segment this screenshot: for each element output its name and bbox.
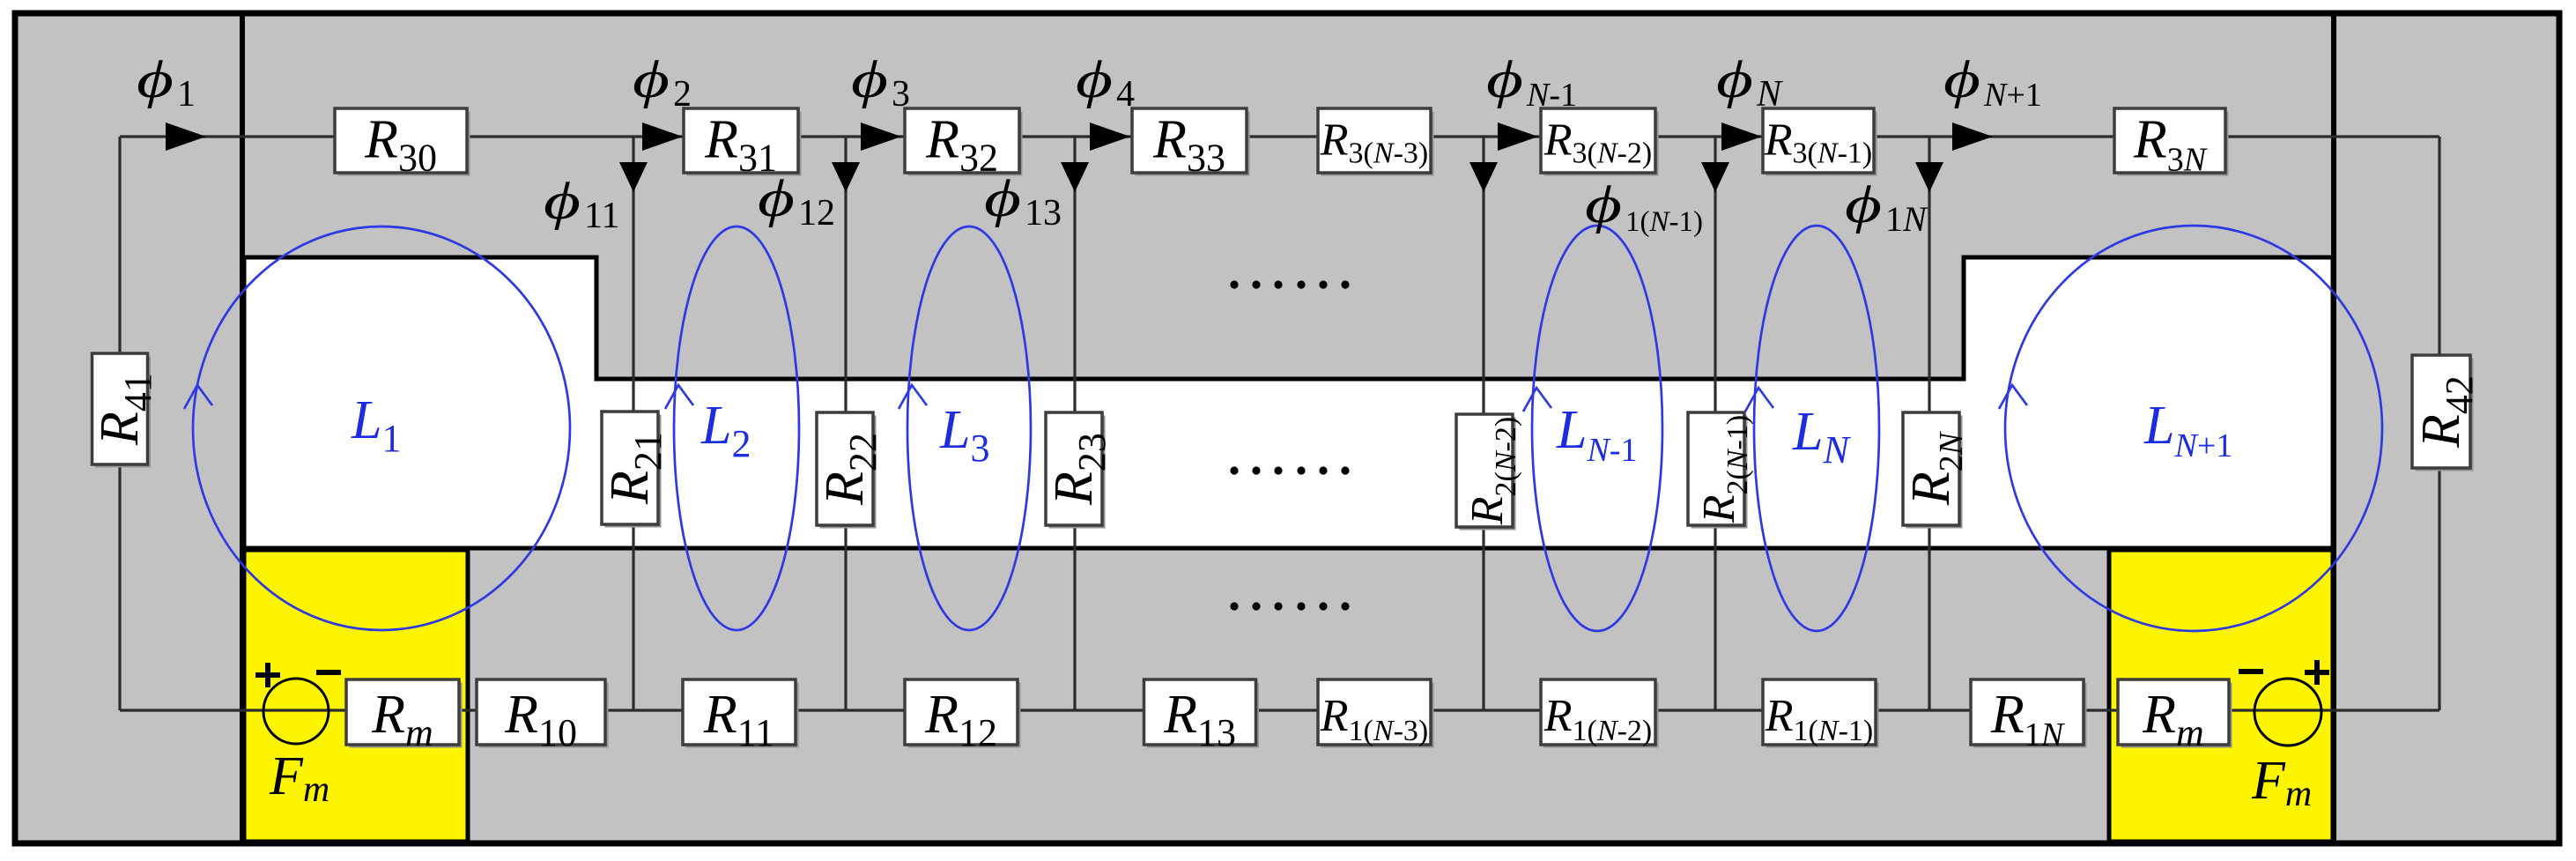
source label Fm left: [269, 746, 329, 810]
node label phiN-1: [1486, 50, 1577, 114]
inductance label LN+1: [2143, 396, 2232, 464]
MMF source Fm right (circle): [2254, 679, 2321, 746]
wire bottom horizontal rail: [120, 709, 2439, 711]
flux arrow phi4 (right): [1090, 122, 1130, 151]
resistor R10: [477, 679, 609, 754]
wire top horizontal flux rail: [120, 135, 2439, 137]
node label phi4: [1076, 50, 1135, 115]
flux arrow phi1N (down): [1915, 162, 1943, 192]
right inner wall: [2331, 16, 2336, 841]
node label phiN: [1716, 50, 1783, 115]
arrowhead on L1 loop: [184, 385, 212, 409]
resistor R3N: [2114, 108, 2229, 179]
flux arrow phi2 (right): [642, 122, 683, 151]
inductance label L2: [700, 396, 751, 465]
flux arrow phi3 (right): [861, 122, 901, 151]
wire tooth branch 6: [1928, 137, 1930, 710]
resistor R42: [2411, 355, 2481, 471]
resistor Rm right: [2118, 679, 2232, 754]
arrowhead on L3 loop: [899, 385, 927, 409]
inductance LN-1 loop ellipse: [1532, 226, 1662, 631]
resistor R23: [1044, 412, 1114, 529]
node label phi2: [633, 50, 692, 115]
wire tooth branch 4: [1482, 137, 1484, 710]
resistor R32: [905, 108, 1023, 180]
resistor R1(N-1): [1763, 679, 1879, 748]
resistor R1N: [1971, 679, 2087, 753]
resistor R11: [683, 679, 799, 754]
minus sign right source: [2239, 669, 2263, 674]
continuation dots lower row: [1230, 602, 1349, 610]
magnet block left (Fm source region): [244, 550, 468, 842]
node label phi1: [137, 50, 196, 115]
resistor R21: [600, 412, 670, 528]
resistor R31: [684, 108, 802, 180]
inductance label LN-1: [1556, 400, 1638, 469]
arrowhead on L2 loop: [665, 385, 693, 409]
continuation dots upper row: [1230, 280, 1349, 288]
continuation dots middle row: [1230, 466, 1349, 474]
node label phi13: [984, 169, 1062, 234]
wire right return branch (R42): [2438, 137, 2440, 710]
flux arrow phi13 (down): [1061, 162, 1089, 192]
wire left return branch (R41): [118, 137, 121, 710]
magnet block right (Fm source region): [2109, 550, 2333, 842]
minus sign left source: [316, 670, 341, 675]
resistor R2(N-1): [1688, 412, 1754, 529]
flux arrow phiN+1 (right): [1952, 122, 1993, 151]
resistor R22: [815, 412, 885, 529]
flux arrow phi11 (down): [619, 162, 648, 192]
flux arrow phiN-1 (right): [1498, 122, 1538, 151]
flux arrow phiN (right): [1721, 122, 1762, 151]
resistor R1(N-2): [1541, 679, 1659, 748]
white stator slab (air region): [244, 257, 2333, 548]
inductance label L1: [351, 390, 401, 460]
resistor R3(N-3): [1318, 108, 1434, 176]
left inner wall: [240, 16, 245, 841]
resistor R12: [905, 679, 1021, 754]
plus sign right source: [2305, 660, 2329, 685]
resistor R30: [335, 108, 470, 180]
node label phi3: [851, 50, 910, 115]
resistor R2(N-2): [1456, 414, 1522, 531]
resistor R33: [1132, 108, 1250, 180]
inductance L2 loop ellipse: [674, 226, 799, 630]
wire tooth branch 2: [844, 137, 847, 710]
node label phi12: [758, 169, 835, 234]
inductance L3 loop ellipse: [907, 226, 1031, 630]
node label phi1(N-1): [1585, 175, 1703, 238]
inductance L1 loop ellipse: [193, 226, 570, 630]
wire tooth branch 3: [1073, 137, 1076, 710]
resistor R3(N-1): [1763, 108, 1877, 176]
inductance LN+1 loop ellipse: [2005, 226, 2382, 631]
flux arrow phi1(N-1)b (down): [1701, 162, 1729, 192]
resistor R13: [1144, 679, 1260, 754]
arrowhead on LN+1 loop: [1999, 385, 2027, 409]
resistor R3(N-2): [1541, 108, 1659, 176]
inductance label LN: [1792, 402, 1851, 471]
node label phi1N: [1845, 175, 1928, 239]
arrowhead on LN loop: [1745, 388, 1773, 412]
inductance LN loop ellipse: [1754, 226, 1879, 631]
resistor R1(N-3): [1318, 679, 1434, 748]
node label phi11: [544, 172, 619, 236]
flux arrow phi1(N-1)a (down): [1469, 162, 1498, 192]
node label phiN+1: [1943, 50, 2042, 114]
wire tooth branch 5: [1714, 137, 1716, 710]
resistor R2N: [1901, 412, 1970, 529]
flux arrow phi1 (right): [166, 122, 206, 151]
source label Fm right: [2251, 751, 2312, 814]
arrowhead on LN-1 loop: [1523, 388, 1551, 412]
resistor R41: [90, 353, 159, 468]
flux arrow phi12 (down): [832, 162, 860, 192]
resistor Rm left: [346, 679, 463, 754]
plus sign left source: [255, 663, 280, 687]
wire tooth branch 1: [632, 137, 634, 710]
MMF source Fm left (circle): [263, 679, 329, 744]
inductance label L3: [939, 400, 989, 470]
